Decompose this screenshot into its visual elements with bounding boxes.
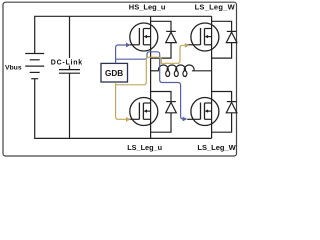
diode D1 <box>151 21 177 58</box>
wire: left leg vertical <box>150 16 152 138</box>
transistor Q1 (HS_Leg_u) <box>130 23 158 51</box>
svg-text:LS_Leg_u: LS_Leg_u <box>127 143 162 152</box>
wire: tan gate signal to top right transistor <box>116 45 186 85</box>
svg-text:LS_Leg_W: LS_Leg_W <box>195 2 236 11</box>
svg-text:GDB: GDB <box>105 69 123 78</box>
arrowhead blue LS_Leg_W <box>183 117 188 122</box>
wire: tan gate signal to LS_Leg_u <box>116 82 127 119</box>
transistor Q3 (LS_Leg_u) <box>130 98 158 126</box>
diode D4 <box>212 92 237 133</box>
svg-text:LS_Leg_W: LS_Leg_W <box>197 143 236 152</box>
arrowhead tan top right <box>185 43 190 48</box>
arrowhead blue HS_Leg_u <box>126 43 131 48</box>
inductor L1 <box>151 65 212 76</box>
arrowhead tan LS_Leg_u <box>126 117 131 122</box>
label DC-Link <box>51 58 87 67</box>
svg-text:HS_Leg_u: HS_Leg_u <box>129 2 166 11</box>
svg-text:DC-Link: DC-Link <box>51 60 83 67</box>
diode D3 <box>151 92 177 133</box>
wire: top DC bus <box>35 16 212 53</box>
capacitor DC-Link <box>59 70 80 74</box>
wire: blue gate signal to LS_Leg_W (bottom right) <box>116 52 184 119</box>
border frame <box>3 2 237 156</box>
GDB box <box>101 63 128 82</box>
wire: bottom DC bus <box>35 79 212 139</box>
diode D2 <box>212 21 237 58</box>
svg-text:Vbus: Vbus <box>5 65 22 72</box>
battery Vbus <box>25 54 44 79</box>
wire: DC-link vertical <box>69 16 71 138</box>
transistor Q2 (LS_Leg_W top) <box>187 23 219 51</box>
wire: right leg vertical <box>211 16 213 138</box>
transistor Q4 (LS_Leg_W bottom) <box>187 98 219 126</box>
wire: blue gate signal to HS_Leg_u <box>116 45 127 63</box>
